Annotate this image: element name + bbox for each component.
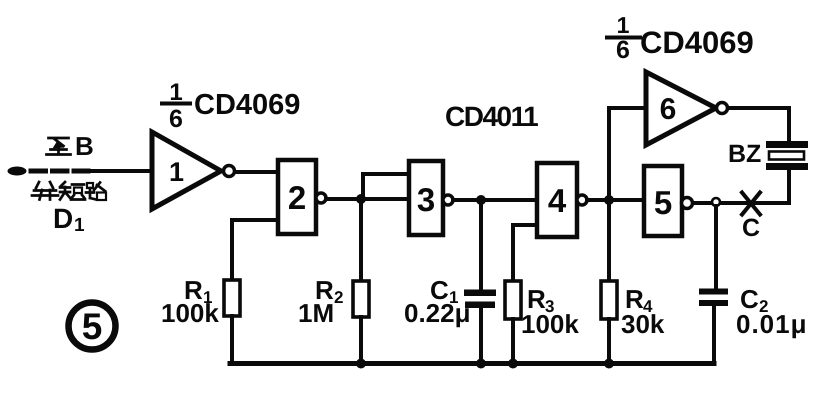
svg-text:100k: 100k xyxy=(161,298,219,328)
label 1/6 CD4069 (right) xyxy=(607,12,754,64)
wire: R3 to ground bus xyxy=(511,319,515,364)
wire: C2 to ground bus xyxy=(712,306,716,364)
junction: gate 3 output node xyxy=(476,195,486,205)
svg-text:2: 2 xyxy=(288,179,306,216)
svg-text:C: C xyxy=(742,214,760,242)
svg-text:100k: 100k xyxy=(521,309,579,339)
wire: node down to R4 xyxy=(607,200,611,282)
wire: inverter 6 output to buzzer BZ xyxy=(728,108,789,142)
wire: inverter 1 output to gate 2 input xyxy=(235,170,278,174)
gate 2 output bubble xyxy=(316,193,326,203)
svg-text:6: 6 xyxy=(169,105,183,133)
svg-text:0.22μ: 0.22μ xyxy=(404,298,471,328)
gate 5 (CD4011) xyxy=(644,166,682,236)
junction: R3 on bus xyxy=(508,359,518,369)
wire: node down to R2 xyxy=(359,199,363,282)
wire: R2 to ground bus xyxy=(359,317,363,364)
wire: node up to inverter 6 input xyxy=(609,108,646,200)
gate 3 output bubble xyxy=(443,195,453,205)
gate 3 (CD4011) xyxy=(409,161,443,235)
svg-text:6: 6 xyxy=(616,36,630,64)
svg-text:CD4069: CD4069 xyxy=(194,89,300,121)
resistor R3 xyxy=(505,281,521,319)
svg-text:1: 1 xyxy=(169,157,184,187)
label R2 xyxy=(315,275,343,307)
inverter gate 6 (1/6 CD4069) xyxy=(646,72,716,145)
wire: C1 to ground bus xyxy=(479,307,483,364)
svg-text:BZ: BZ xyxy=(728,140,761,168)
connection point X at node C xyxy=(742,193,760,215)
resistor R1 xyxy=(224,280,240,316)
label R4 xyxy=(625,284,653,316)
wire: node C down to C2 xyxy=(714,206,718,290)
gate 5 output bubble xyxy=(682,198,693,209)
svg-text:1: 1 xyxy=(74,215,85,236)
svg-text:1M: 1M xyxy=(298,298,334,328)
svg-text:6: 6 xyxy=(660,93,677,126)
capacitor C2 xyxy=(699,289,728,307)
svg-text:5: 5 xyxy=(82,306,103,347)
resistor R2 xyxy=(353,281,369,317)
svg-text:30k: 30k xyxy=(621,309,665,339)
label C2 xyxy=(740,284,768,316)
gate 2 (CD4011) xyxy=(278,160,316,234)
label R1 xyxy=(184,275,212,307)
inverter 1 output bubble xyxy=(224,166,235,177)
wire: R1 to ground bus xyxy=(230,316,234,364)
svg-text:1: 1 xyxy=(617,12,630,38)
wire: gate 2 output to gate 3 input xyxy=(326,197,409,201)
junction: C1 on bus xyxy=(476,359,486,369)
buzzer BZ (piezo) xyxy=(766,141,808,170)
junction: gate 2 output node xyxy=(356,194,366,204)
inverter 6 output bubble xyxy=(717,103,728,114)
diode D1 label xyxy=(53,203,85,236)
junction: gate 4 output node xyxy=(604,195,614,205)
svg-text:4: 4 xyxy=(548,182,567,219)
node label 并短路 xyxy=(32,182,106,200)
wire: gate 3 output to gate 4 input xyxy=(453,198,537,202)
wire: BZ to output node xyxy=(787,170,791,203)
svg-text:CD4069: CD4069 xyxy=(640,25,754,60)
label C1 xyxy=(430,275,458,307)
svg-text:CD4011: CD4011 xyxy=(445,101,538,132)
wire: input line to inverter 1 xyxy=(88,169,152,173)
wire: gate 4 output to gate 5 input xyxy=(587,198,644,202)
wire: dashed input line xyxy=(31,169,88,174)
input terminal dot xyxy=(8,167,27,176)
wire: R4 to ground bus xyxy=(607,319,611,364)
gate 4 (CD4011) xyxy=(537,163,577,237)
svg-text:5: 5 xyxy=(654,184,672,221)
svg-text:D: D xyxy=(53,203,73,234)
wire: R1 up to gate 2 lower input xyxy=(232,220,278,281)
gate 4 output bubble xyxy=(577,195,587,205)
label R3 xyxy=(527,284,554,316)
junction: R2 on bus xyxy=(356,359,366,369)
ground bus wire xyxy=(230,361,714,366)
svg-text:2: 2 xyxy=(334,288,343,307)
wire: gate 5 output to BZ node xyxy=(693,201,789,205)
figure number 5 (circled) xyxy=(69,303,116,350)
capacitor C1 xyxy=(464,290,496,309)
svg-text:B: B xyxy=(75,131,94,161)
svg-text:0.01μ: 0.01μ xyxy=(736,309,808,339)
resistor R4 xyxy=(601,281,617,319)
inverter gate 1 (1/6 CD4069) xyxy=(152,132,221,209)
junction: R4 on bus xyxy=(604,359,614,369)
svg-text:3: 3 xyxy=(417,181,435,218)
wire: branch to gate 3 upper input xyxy=(363,174,409,199)
label 1/6 CD4069 (left) xyxy=(162,79,300,133)
node label 至B xyxy=(47,131,94,161)
node C (open junction) xyxy=(712,198,720,206)
wire: R3 up to gate 4 lower input xyxy=(513,225,537,282)
wire: node down to C1 xyxy=(479,200,483,291)
